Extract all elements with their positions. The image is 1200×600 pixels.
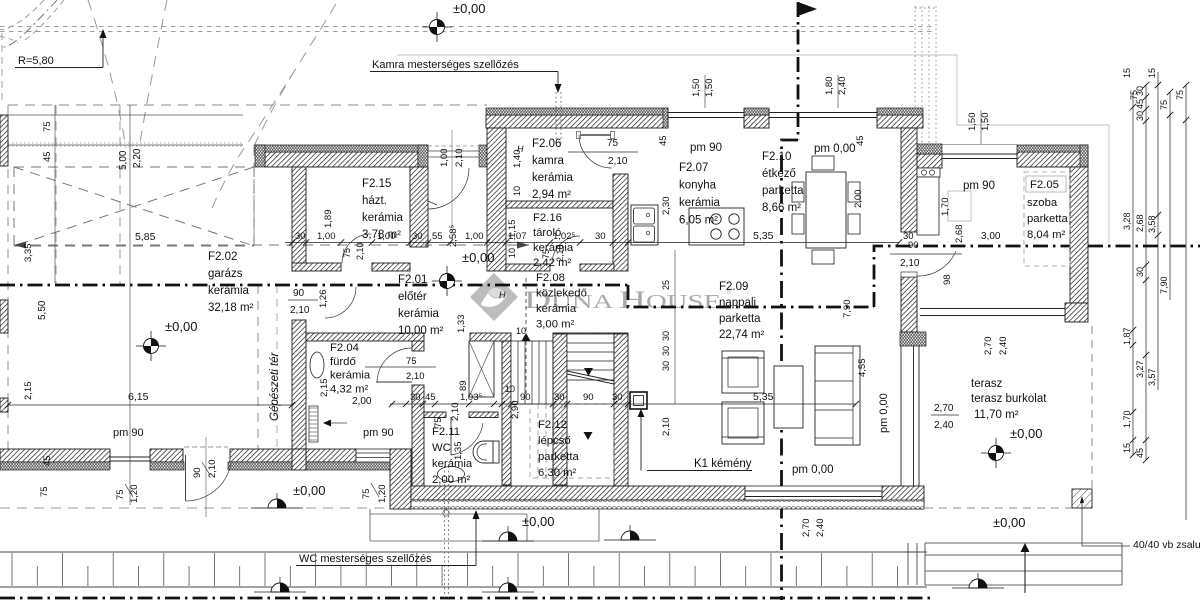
terrain lines [0, 551, 927, 553]
svg-text:terasz: terasz [971, 378, 1003, 390]
survey marker s6 [482, 526, 534, 541]
svg-text:1,50: 1,50 [980, 113, 991, 132]
dotted vertical cluster top right [914, 6, 916, 150]
svg-text:nappali: nappali [719, 297, 756, 309]
svg-text:30: 30 [1135, 267, 1145, 277]
svg-text:Gépészeti tér: Gépészeti tér [269, 351, 281, 421]
svg-text:1,26: 1,26 [318, 290, 329, 309]
svg-text:90: 90 [192, 467, 203, 478]
svg-text:30: 30 [1135, 111, 1145, 121]
svg-text:±0,00: ±0,00 [522, 514, 554, 529]
svg-text:kerámia: kerámia [536, 303, 577, 315]
dining table [806, 172, 846, 248]
szoba door leaf and swing [901, 272, 917, 277]
svg-text:30: 30 [661, 361, 671, 371]
svg-text:1,80: 1,80 [824, 77, 835, 96]
5,85 dashed dimension [14, 244, 529, 246]
svg-text:3,00: 3,00 [981, 231, 1001, 242]
svg-text:45: 45 [855, 135, 866, 146]
svg-text:F2.10: F2.10 [762, 151, 791, 163]
left dimension chain 6,15 [8, 404, 292, 406]
main horizontal dimension chain y242 [285, 242, 899, 244]
wc vent duct dotted [444, 466, 446, 598]
svg-text:30: 30 [661, 346, 671, 356]
svg-text:2,30: 2,30 [661, 197, 672, 216]
ventilation shaft [469, 341, 494, 397]
svg-text:90: 90 [520, 392, 531, 403]
svg-text:1,03⁵: 1,03⁵ [460, 392, 482, 403]
svg-text:30: 30 [412, 231, 423, 242]
svg-text:2,00: 2,00 [352, 396, 372, 407]
svg-text:pm 90: pm 90 [363, 427, 394, 439]
svg-text:1,35: 1,35 [453, 442, 464, 461]
dashed guide line y105 [8, 104, 487, 106]
svg-text:75: 75 [607, 138, 619, 149]
svg-text:kerámia: kerámia [679, 197, 721, 209]
terrace steps [908, 543, 1122, 585]
walking arrow terrace steps [1024, 551, 1026, 593]
svg-text:6,30 m²: 6,30 m² [538, 467, 577, 479]
survey marker s9 [952, 573, 1004, 588]
armchair 1 [722, 351, 764, 393]
foundation outline below wall [369, 509, 371, 541]
left wall stub top [0, 115, 8, 166]
svg-text:7,90: 7,90 [1159, 276, 1169, 294]
svg-text:8,66 m²: 8,66 m² [762, 202, 801, 214]
F2.15 west wall [292, 167, 306, 271]
svg-text:75: 75 [42, 121, 53, 132]
svg-text:5,85: 5,85 [135, 231, 156, 243]
svg-text:1,89: 1,89 [323, 210, 334, 229]
svg-text:pm 90: pm 90 [690, 142, 722, 154]
north wall kitchen section [486, 115, 668, 128]
left wall stub low [0, 398, 8, 412]
svg-text:pm 0,00: pm 0,00 [878, 393, 890, 433]
svg-text:2,40: 2,40 [815, 519, 826, 538]
svg-text:22,74 m²: 22,74 m² [719, 329, 765, 341]
survey marker entry [432, 266, 462, 296]
svg-text:parketta: parketta [719, 313, 761, 325]
svg-text:30: 30 [612, 392, 623, 403]
stair break line [567, 371, 614, 381]
garage pedestrian door swing [186, 463, 231, 501]
window etkezo north 2 [769, 112, 877, 114]
wc north wall pieces [424, 412, 446, 418]
section line with flag pole [797, 2, 800, 140]
svg-text:±0,00: ±0,00 [462, 250, 494, 265]
garage footprint dashed rectangle with X [14, 167, 254, 246]
svg-text:4,32 m²: 4,32 m² [330, 383, 369, 395]
svg-text:75: 75 [115, 489, 126, 500]
svg-text:2,40: 2,40 [998, 337, 1009, 356]
svg-text:1,50: 1,50 [704, 79, 715, 98]
bath window S [356, 449, 397, 462]
svg-text:5,35: 5,35 [753, 391, 774, 403]
svg-text:kerámia: kerámia [208, 285, 250, 297]
stair treads lower flight [511, 341, 553, 404]
kamra door leaf [579, 134, 612, 136]
bath east wall upper [412, 341, 424, 351]
right margin dimension chains [1132, 92, 1134, 455]
south interior dimension chain y404 [390, 403, 856, 405]
bath door [376, 381, 412, 383]
svg-text:kerámia: kerámia [330, 370, 371, 382]
szoba wardrobe [917, 177, 939, 235]
svg-text:±0,00: ±0,00 [993, 515, 1025, 530]
survey marker top [422, 12, 452, 42]
svg-text:parketta: parketta [1027, 213, 1069, 225]
kitchen sink unit [631, 205, 658, 245]
svg-text:fürdő: fürdő [330, 356, 356, 368]
svg-text:2,42 m²: 2,42 m² [533, 257, 572, 269]
svg-text:89: 89 [458, 380, 469, 391]
svg-text:1,33: 1,33 [456, 315, 467, 334]
svg-text:pm 0,00: pm 0,00 [814, 143, 856, 155]
svg-text:30: 30 [661, 331, 671, 341]
svg-text:45: 45 [1135, 99, 1145, 109]
svg-text:F2.02: F2.02 [208, 251, 237, 263]
svg-text:kamra: kamra [532, 155, 565, 167]
stair block north band [470, 333, 511, 341]
svg-text:32,18 m²: 32,18 m² [208, 302, 254, 314]
svg-text:15: 15 [1122, 68, 1132, 78]
svg-text:1,70: 1,70 [1122, 410, 1132, 428]
svg-text:10: 10 [505, 384, 515, 394]
svg-text:±0,00: ±0,00 [1010, 426, 1042, 441]
garage window SW [110, 456, 150, 458]
F2.15 door swing [342, 234, 371, 263]
F2.15 east wall [410, 167, 428, 247]
bath washbasin oval [310, 352, 324, 378]
svg-text:3,58: 3,58 [1147, 215, 1157, 233]
svg-text:30: 30 [410, 392, 421, 403]
svg-text:4,55: 4,55 [857, 359, 868, 378]
svg-text:10,00 m²: 10,00 m² [398, 325, 444, 337]
double dotted site line top [0, 26, 936, 28]
nappali left chain [674, 250, 676, 404]
svg-text:45: 45 [658, 135, 669, 146]
svg-text:pm 90: pm 90 [113, 427, 144, 439]
svg-text:2,10: 2,10 [290, 305, 310, 316]
svg-text:szoba: szoba [1027, 197, 1058, 209]
gepeszeti south corner [292, 449, 306, 470]
stair upper flight [567, 334, 614, 380]
svg-text:Kamra mesterséges szellőzés: Kamra mesterséges szellőzés [372, 59, 519, 71]
svg-text:kerámia: kerámia [532, 172, 574, 184]
svg-text:3,27: 3,27 [1135, 360, 1145, 378]
bath east wall lower [412, 385, 424, 487]
svg-text:7,90: 7,90 [842, 300, 853, 319]
svg-text:5,35: 5,35 [753, 230, 774, 242]
svg-text:kerámia: kerámia [533, 242, 574, 254]
svg-text:98: 98 [942, 274, 953, 285]
svg-text:2,10: 2,10 [900, 258, 920, 269]
svg-text:parketta: parketta [762, 185, 804, 197]
main south wall nappali [411, 486, 745, 500]
svg-text:75: 75 [342, 248, 352, 258]
svg-text:1,00: 1,00 [465, 231, 484, 242]
watermark Duna House logo [470, 273, 518, 321]
kamra/tarolo divider [506, 201, 613, 208]
svg-text:45: 45 [1135, 448, 1145, 458]
chimney K1 [630, 392, 647, 409]
svg-text:2,10: 2,10 [608, 156, 628, 167]
svg-text:10: 10 [516, 326, 526, 336]
svg-text:WC: WC [432, 442, 451, 454]
wc toilet [473, 441, 499, 463]
szoba north wall [1017, 152, 1088, 167]
svg-text:30: 30 [1135, 86, 1145, 96]
dashed south guide y508 [0, 507, 560, 509]
svg-text:garázs: garázs [208, 268, 243, 280]
svg-text:1,20: 1,20 [377, 485, 388, 504]
roof overhang outline [397, 55, 1109, 243]
svg-text:F2.05: F2.05 [1030, 179, 1059, 191]
svg-text:2,58⁵: 2,58⁵ [448, 225, 459, 247]
svg-text:3,35: 3,35 [23, 244, 34, 263]
sofa [815, 346, 860, 445]
svg-text:45: 45 [42, 151, 53, 162]
svg-text:H: H [499, 290, 506, 300]
svg-text:3,00 m²: 3,00 m² [536, 319, 575, 331]
svg-text:1,50: 1,50 [691, 79, 702, 98]
svg-text:1,02⁵: 1,02⁵ [553, 231, 575, 242]
bath north wall [306, 333, 424, 341]
svg-text:2,10: 2,10 [207, 460, 218, 479]
svg-text:3,57: 3,57 [1147, 368, 1157, 386]
svg-text:H: H [517, 144, 524, 154]
svg-text:6,15: 6,15 [128, 391, 149, 403]
svg-text:45: 45 [42, 455, 53, 466]
svg-text:30: 30 [595, 231, 606, 242]
svg-text:75: 75 [361, 488, 372, 499]
svg-text:75: 75 [1159, 100, 1169, 110]
svg-text:±0,00: ±0,00 [165, 319, 197, 334]
svg-text:75: 75 [1175, 90, 1185, 100]
svg-text:1,87: 1,87 [1122, 327, 1132, 345]
svg-text:2,15: 2,15 [23, 382, 34, 401]
svg-text:75: 75 [39, 486, 50, 497]
bottom thick dash-dot line [0, 597, 935, 600]
svg-text:K1 kémény: K1 kémény [694, 458, 752, 470]
svg-text:1,50: 1,50 [967, 113, 978, 132]
svg-text:terasz burkolat: terasz burkolat [971, 393, 1047, 405]
wc door leaf and swing [450, 417, 452, 455]
svg-text:F2.07: F2.07 [679, 162, 708, 174]
svg-text:25: 25 [661, 280, 671, 290]
svg-text:10: 10 [512, 186, 522, 196]
svg-text:2,10: 2,10 [450, 403, 461, 422]
svg-text:2,70: 2,70 [801, 519, 812, 538]
svg-text:F2.09: F2.09 [719, 281, 748, 293]
svg-text:90: 90 [293, 288, 305, 299]
svg-text:75: 75 [433, 417, 444, 428]
walk line + arrows [525, 278, 527, 334]
property boundary thick dash-dot left [0, 284, 628, 287]
kozlekedo north wall pieces [506, 264, 550, 271]
small arrow marker bath [323, 420, 331, 427]
svg-text:8,04 m²: 8,04 m² [1027, 229, 1066, 241]
understair dashed [530, 404, 614, 478]
room label F2.05 szoba [1024, 172, 1070, 266]
driveway arc cluster top left [0, 0, 57, 47]
kitchen counter + stove [689, 208, 744, 245]
stair mid wall [553, 334, 567, 485]
szoba cabinet [917, 168, 940, 177]
survey marker s5 [251, 493, 303, 508]
stair east wall [614, 334, 628, 487]
svg-text:F2.06: F2.06 [532, 138, 561, 150]
svg-text:2,40: 2,40 [934, 420, 954, 431]
garage apron strip [8, 114, 243, 116]
svg-text:parketta: parketta [538, 451, 580, 463]
kamra east wall [613, 174, 628, 271]
svg-text:30: 30 [554, 392, 565, 403]
svg-text:30: 30 [295, 231, 306, 242]
step connector wall [390, 449, 411, 509]
svg-text:2,68: 2,68 [954, 225, 965, 244]
svg-text:2,10: 2,10 [355, 242, 365, 260]
svg-text:75: 75 [406, 356, 417, 367]
svg-text:2,15: 2,15 [319, 379, 330, 398]
svg-text:1,70: 1,70 [940, 198, 951, 217]
svg-text:WC mesterséges szellőzés: WC mesterséges szellőzés [299, 553, 432, 565]
svg-text:±0,00: ±0,00 [293, 483, 325, 498]
wc basin [438, 467, 465, 482]
svg-text:1,00: 1,00 [377, 231, 396, 242]
szoba west wall upper [901, 128, 917, 232]
glass wall top cap [900, 332, 926, 346]
survey marker terasz [981, 438, 1011, 468]
svg-text:2,20: 2,20 [132, 148, 143, 168]
gepeszeti east wall [292, 320, 306, 449]
tarolo door swing [552, 236, 580, 264]
south wall garage/bath band [0, 449, 110, 462]
svg-text:6,05 m²: 6,05 m² [679, 215, 718, 227]
svg-text:R=5,80: R=5,80 [18, 55, 54, 67]
nappali east glass wall [900, 346, 902, 486]
svg-text:F2.12: F2.12 [538, 419, 567, 431]
north wall left section (F2.15) [265, 152, 418, 167]
svg-text:10: 10 [507, 248, 517, 258]
svg-text:3,28: 3,28 [1122, 212, 1132, 230]
svg-text:2,70: 2,70 [934, 403, 954, 414]
svg-text:15: 15 [1122, 443, 1132, 453]
szoba south window [920, 308, 1065, 310]
svg-text:2,90: 2,90 [510, 401, 521, 420]
svg-text:kerámia: kerámia [398, 308, 440, 320]
svg-text:F2.04: F2.04 [330, 342, 359, 354]
svg-text:1,15: 1,15 [507, 220, 518, 239]
svg-text:előtér: előtér [398, 291, 427, 303]
svg-text:±0,00: ±0,00 [453, 1, 485, 16]
terrace pillar 40/40 [1072, 489, 1092, 508]
szoba south wall corner [1065, 303, 1088, 322]
svg-text:2,70: 2,70 [983, 337, 994, 356]
svg-text:45: 45 [425, 392, 436, 403]
terrain ticks [11, 553, 13, 586]
svg-text:90: 90 [908, 240, 919, 251]
svg-text:5,50: 5,50 [37, 300, 48, 320]
SE corner block [882, 486, 924, 502]
svg-text:55: 55 [432, 231, 443, 242]
svg-text:lépcső: lépcső [538, 435, 571, 447]
svg-text:11,70 m²: 11,70 m² [974, 409, 1019, 421]
svg-text:F2.16: F2.16 [533, 212, 562, 224]
svg-text:2,68: 2,68 [1135, 214, 1145, 232]
svg-text:F2.08: F2.08 [536, 272, 565, 284]
szoba north window [942, 153, 1017, 155]
flag symbol [798, 2, 817, 16]
svg-text:40/40 vb zsalu: 40/40 vb zsalu [1133, 539, 1200, 551]
left wall stub mid [0, 300, 8, 333]
F2.15 south wall pieces [292, 263, 341, 271]
svg-text:90: 90 [583, 392, 594, 403]
survey marker garage [136, 331, 166, 361]
svg-text:1,00: 1,00 [317, 231, 336, 242]
svg-text:étkező: étkező [762, 168, 796, 180]
survey marker s8 [482, 577, 534, 592]
svg-text:1,00: 1,00 [439, 149, 450, 168]
stair west wall [502, 341, 511, 485]
svg-text:2,94 m²: 2,94 m² [532, 189, 571, 201]
svg-text:pm 90: pm 90 [963, 180, 995, 192]
svg-text:konyha: konyha [679, 180, 717, 192]
nappali south window [745, 486, 882, 500]
kamra west wall [487, 128, 506, 271]
svg-text:házt.: házt. [362, 195, 387, 207]
svg-text:5,00: 5,00 [118, 150, 129, 170]
szoba east wall [1070, 167, 1088, 303]
svg-text:2,00: 2,00 [853, 190, 864, 209]
survey marker s7 [254, 577, 306, 592]
svg-text:közlekedő: közlekedő [536, 288, 587, 300]
szoba step wall [916, 154, 942, 168]
svg-text:2,10: 2,10 [454, 149, 465, 168]
window kamra-konyha north 1 [668, 112, 744, 114]
svg-text:2,40: 2,40 [837, 77, 848, 96]
svg-text:pm 0,00: pm 0,00 [792, 464, 834, 476]
svg-text:2,10: 2,10 [661, 418, 672, 437]
radiator bath [309, 406, 318, 442]
driveway turning arcs [88, 0, 126, 148]
terrace dashed outline [1091, 326, 1093, 508]
szoba desk (faint) [948, 191, 971, 221]
dining chairs [812, 156, 834, 170]
svg-text:2,00 m²: 2,00 m² [432, 474, 471, 486]
opening entry north with door [479, 145, 487, 167]
coffee table [774, 366, 803, 428]
svg-text:kerámia: kerámia [362, 212, 404, 224]
svg-text:F2.15: F2.15 [362, 178, 391, 190]
svg-text:15: 15 [1147, 68, 1157, 78]
szoba west wall lower [901, 277, 917, 332]
armchair 2 [722, 402, 764, 444]
svg-text:2,10: 2,10 [406, 371, 425, 382]
svg-text:F2.01: F2.01 [398, 274, 427, 286]
survey marker s10 [604, 525, 656, 540]
